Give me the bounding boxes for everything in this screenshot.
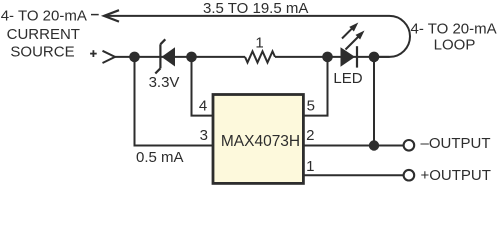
svg-text:1: 1 — [306, 158, 314, 175]
svg-text:0.5 mA: 0.5 mA — [136, 149, 184, 166]
wire: main horizontal rail — [115, 56, 245, 58]
svg-text:LED: LED — [333, 70, 362, 87]
node dot D (LED cathode junction) — [369, 52, 380, 63]
label: 4- TO 20-mA CURRENT SOURCE — [1, 7, 87, 60]
svg-text:MAX4073H: MAX4073H — [221, 133, 300, 150]
LED emission arrow 1 — [342, 28, 352, 38]
svg-text:5: 5 — [307, 98, 315, 115]
arrowhead left (current direction) — [104, 10, 119, 21]
svg-text:4- TO 20-mA: 4- TO 20-mA — [411, 21, 497, 38]
svg-text:+OUTPUT: +OUTPUT — [421, 167, 491, 184]
svg-text:LOOP: LOOP — [434, 37, 476, 54]
svg-text:3.5 TO 19.5 mA: 3.5 TO 19.5 mA — [203, 0, 308, 17]
svg-text:–OUTPUT: –OUTPUT — [421, 135, 491, 152]
node dot B (zener right junction) — [186, 52, 197, 63]
terminal -OUTPUT — [404, 140, 415, 151]
svg-text:SOURCE: SOURCE — [10, 44, 74, 61]
svg-text:2: 2 — [306, 127, 314, 144]
wire: pin 2 output — [303, 145, 404, 147]
LED D2 — [341, 47, 356, 67]
svg-text:3: 3 — [200, 127, 208, 144]
wire: loop return arc — [374, 16, 410, 57]
terminal +OUTPUT — [404, 170, 415, 181]
svg-text:CURRENT: CURRENT — [7, 26, 80, 43]
IC U1 MAX4073H body — [213, 95, 303, 184]
wire: pin 1 output — [303, 174, 404, 176]
node dot A (input junction) — [129, 52, 140, 63]
node dot E (pin2 junction) — [369, 140, 379, 150]
wire: pin 3 branch — [135, 57, 214, 146]
wire: top feedback line — [104, 15, 390, 17]
plus sign input polarity — [90, 50, 97, 57]
wire: pin 4 branch — [192, 57, 214, 116]
input open arrow — [103, 51, 116, 63]
label 4- TO 20-mA LOOP — [411, 21, 497, 54]
resistor R1 — [245, 51, 275, 62]
svg-text:4- TO 20-mA: 4- TO 20-mA — [1, 7, 87, 24]
leader dash — [91, 14, 99, 16]
svg-text:1: 1 — [255, 34, 263, 51]
zener diode D1 3.3V — [155, 39, 165, 73]
svg-text:3.3V: 3.3V — [149, 74, 180, 91]
wire: cathode to pin2 node — [373, 57, 375, 146]
wire: pin 5 branch — [303, 57, 328, 116]
LED emission arrow 2 — [346, 37, 359, 50]
node dot C (LED anode junction) — [322, 52, 333, 63]
svg-text:4: 4 — [199, 98, 207, 115]
